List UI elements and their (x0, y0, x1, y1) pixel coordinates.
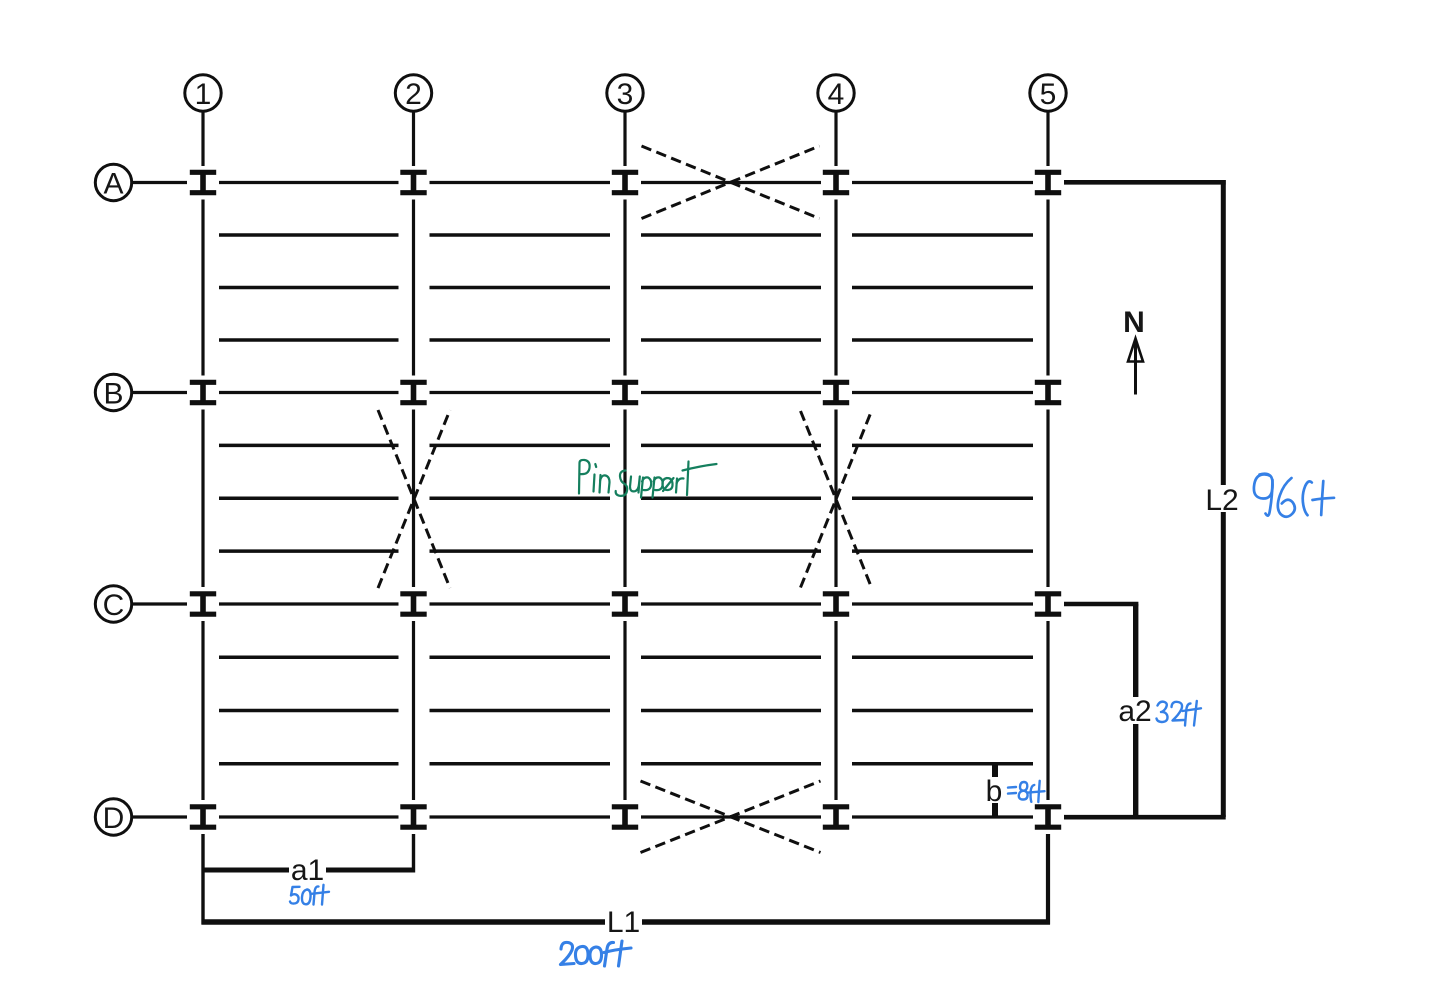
column C1 (190, 594, 216, 614)
column C5 (1035, 594, 1061, 614)
beam bay 3-4 between BC #1 (641, 444, 821, 447)
column B2 (400, 382, 426, 402)
beam bay 3-4 between BC #3 (641, 549, 821, 552)
svg-text:L2: L2 (1205, 484, 1238, 517)
X-brace grid 2 between B-C (378, 410, 450, 588)
grid line A segment 2-3 (430, 181, 611, 184)
beam bay 4-5 between CD #2 (852, 709, 1033, 712)
column A1 (190, 172, 216, 192)
grid line B segment 4-5 (852, 391, 1033, 394)
beam bay 2-3 between AB #1 (430, 233, 611, 236)
grid line A segment 1-2 (219, 181, 399, 184)
grid line A stem (132, 181, 188, 184)
beam bay 3-4 between BC #2 (641, 497, 821, 500)
grid line D stem (132, 815, 188, 818)
beam bay 2-3 between CD #2 (430, 709, 611, 712)
dimension extension: line A to right (1064, 180, 1226, 185)
grid line B segment 1-2 (219, 391, 399, 394)
column B5 (1035, 382, 1061, 402)
column D2 (400, 807, 426, 827)
column B3 (612, 382, 638, 402)
label a2 halo (1117, 697, 1153, 724)
beam bay 3-4 between CD #3 (641, 762, 821, 765)
beam bay 2-3 between CD #3 (430, 762, 611, 765)
svg-text:a1: a1 (291, 854, 324, 887)
svg-text:a2: a2 (1118, 695, 1151, 728)
svg-text:A: A (103, 168, 123, 201)
dimension tick b (992, 764, 998, 818)
grid line D segment 2-3 (430, 815, 611, 818)
beam bay 1-2 between CD #1 (219, 656, 399, 659)
beam bay 3-4 between AB #1 (641, 233, 821, 236)
beam bay 4-5 between BC #1 (852, 444, 1033, 447)
grid line A segment 3-4 (641, 181, 821, 184)
grid line 5 segment B-C (1046, 410, 1049, 588)
column A4 (823, 172, 849, 192)
column C2 (400, 594, 426, 614)
beam bay 3-4 between AB #2 (641, 286, 821, 289)
column A2 (400, 172, 426, 192)
grid bubble 2 (395, 75, 431, 111)
X-brace grid 4 between B-C (801, 411, 872, 588)
dimension line L1 (202, 919, 1051, 924)
grid line C segment 1-2 (219, 602, 399, 605)
grid line 2 segment C-D (412, 621, 415, 800)
handwritten 32ft (blue) (1157, 701, 1202, 726)
grid line C stem (132, 602, 188, 605)
svg-text:3: 3 (617, 78, 634, 111)
grid line B segment 2-3 (430, 391, 611, 394)
grid line 1 segment C-D (201, 621, 204, 800)
grid line 4 segment C-D (834, 621, 837, 800)
grid line 5 segment C-D (1046, 621, 1049, 800)
column B4 (823, 382, 849, 402)
column C4 (823, 594, 849, 614)
handwritten Pin support (green) (579, 460, 717, 498)
grid line B stem (132, 391, 188, 394)
svg-text:D: D (103, 802, 125, 835)
beam bay 1-2 between AB #2 (219, 286, 399, 289)
north arrow shaft and head (1128, 339, 1143, 395)
beam bay 2-3 between BC #1 (430, 444, 611, 447)
grid bubble C (95, 586, 131, 622)
beam bay 4-5 between BC #3 (852, 549, 1033, 552)
beam bay 4-5 between BC #2 (852, 497, 1033, 500)
beam bay 4-5 between CD #3 (852, 762, 1033, 765)
grid line D segment 4-5 (852, 815, 1033, 818)
dimension line L2 vertical (1221, 180, 1226, 817)
grid line 2 stem (412, 111, 415, 166)
column D4 (823, 807, 849, 827)
dimension line a1 (202, 868, 416, 873)
svg-text:2: 2 (405, 78, 422, 111)
column A3 (612, 172, 638, 192)
grid line 2 segment A-B (412, 200, 415, 376)
svg-text:N: N (1123, 306, 1145, 339)
svg-text:b: b (986, 775, 1003, 808)
grid line 1 segment B-C (201, 410, 204, 588)
svg-text:5: 5 (1040, 78, 1057, 111)
grid line C segment 3-4 (641, 602, 821, 605)
beam bay 3-4 between CD #2 (641, 709, 821, 712)
grid line 3 segment B-C (623, 410, 626, 588)
grid line A segment 4-5 (852, 181, 1033, 184)
beam bay 1-2 between BC #3 (219, 549, 399, 552)
beam bay 3-4 between CD #1 (641, 656, 821, 659)
grid line 5 segment A-B (1046, 200, 1049, 376)
grid bubble A (95, 164, 131, 200)
grid bubble B (95, 374, 131, 410)
beam bay 1-2 between BC #1 (219, 444, 399, 447)
svg-text:L1: L1 (607, 906, 640, 939)
dimension extension: line C to right (1064, 602, 1138, 607)
beam bay 4-5 between AB #2 (852, 286, 1033, 289)
grid line 4 stem (834, 111, 837, 166)
beam bay 2-3 between CD #1 (430, 656, 611, 659)
label L2 halo (1204, 485, 1242, 512)
grid bubble D (95, 799, 131, 835)
dimension line a2 vertical (1133, 604, 1138, 817)
grid line C segment 2-3 (430, 602, 611, 605)
label a1 halo (289, 855, 326, 883)
beam bay 4-5 between AB #3 (852, 338, 1033, 341)
beam bay 1-2 between CD #3 (219, 762, 399, 765)
handwritten 50ft (blue) (290, 885, 329, 905)
grid line D segment 3-4 (641, 815, 821, 818)
svg-text:4: 4 (828, 78, 845, 111)
grid line 2 segment B-C (412, 410, 415, 588)
grid line 1 stem (201, 111, 204, 166)
column D3 (612, 807, 638, 827)
column D1 (190, 807, 216, 827)
svg-text:B: B (103, 378, 123, 411)
handwritten 200ft (blue) (561, 941, 632, 966)
beam bay 1-2 between AB #3 (219, 338, 399, 341)
dimension extension: grid 2 below D (412, 834, 415, 873)
handwritten =8ft (blue) (1008, 781, 1045, 802)
grid bubble 5 (1030, 75, 1066, 111)
grid line 5 stem (1046, 111, 1049, 166)
beam bay 2-3 between AB #2 (430, 286, 611, 289)
grid line 4 segment B-C (834, 410, 837, 588)
grid bubble 1 (185, 75, 221, 111)
svg-text:C: C (103, 589, 125, 622)
grid line 3 segment A-B (623, 200, 626, 376)
handwritten 96ft (blue) (1254, 474, 1334, 517)
beam bay 1-2 between AB #1 (219, 233, 399, 236)
beam bay 4-5 between CD #1 (852, 656, 1033, 659)
beam bay 3-4 between AB #3 (641, 338, 821, 341)
column D5 (1035, 807, 1061, 827)
dimension extension: line D to right (1064, 815, 1226, 820)
column B1 (190, 382, 216, 402)
dimension extension: grid 1 below D (201, 834, 204, 925)
grid line 1 segment A-B (201, 200, 204, 376)
grid line D segment 1-2 (219, 815, 399, 818)
grid line 4 segment A-B (834, 200, 837, 376)
grid bubble 3 (607, 75, 643, 111)
column A5 (1035, 172, 1061, 192)
beam bay 1-2 between BC #2 (219, 497, 399, 500)
svg-text:1: 1 (195, 78, 212, 111)
dimension extension: grid 5 below D (1046, 834, 1050, 925)
X-brace bay 3-4 at line A (642, 146, 820, 219)
beam bay 2-3 between BC #2 (430, 497, 611, 500)
grid line 3 segment C-D (623, 621, 626, 800)
grid line B segment 3-4 (641, 391, 821, 394)
label L1 halo (605, 907, 642, 934)
label b halo (983, 777, 1005, 803)
X-brace bay 3-4 at line D (641, 781, 821, 853)
grid line 3 stem (623, 111, 626, 166)
grid line C segment 4-5 (852, 602, 1033, 605)
grid bubble 4 (818, 75, 854, 111)
beam bay 2-3 between AB #3 (430, 338, 611, 341)
beam bay 1-2 between CD #2 (219, 709, 399, 712)
column C3 (612, 594, 638, 614)
beam bay 4-5 between AB #1 (852, 233, 1033, 236)
beam bay 2-3 between BC #3 (430, 549, 611, 552)
